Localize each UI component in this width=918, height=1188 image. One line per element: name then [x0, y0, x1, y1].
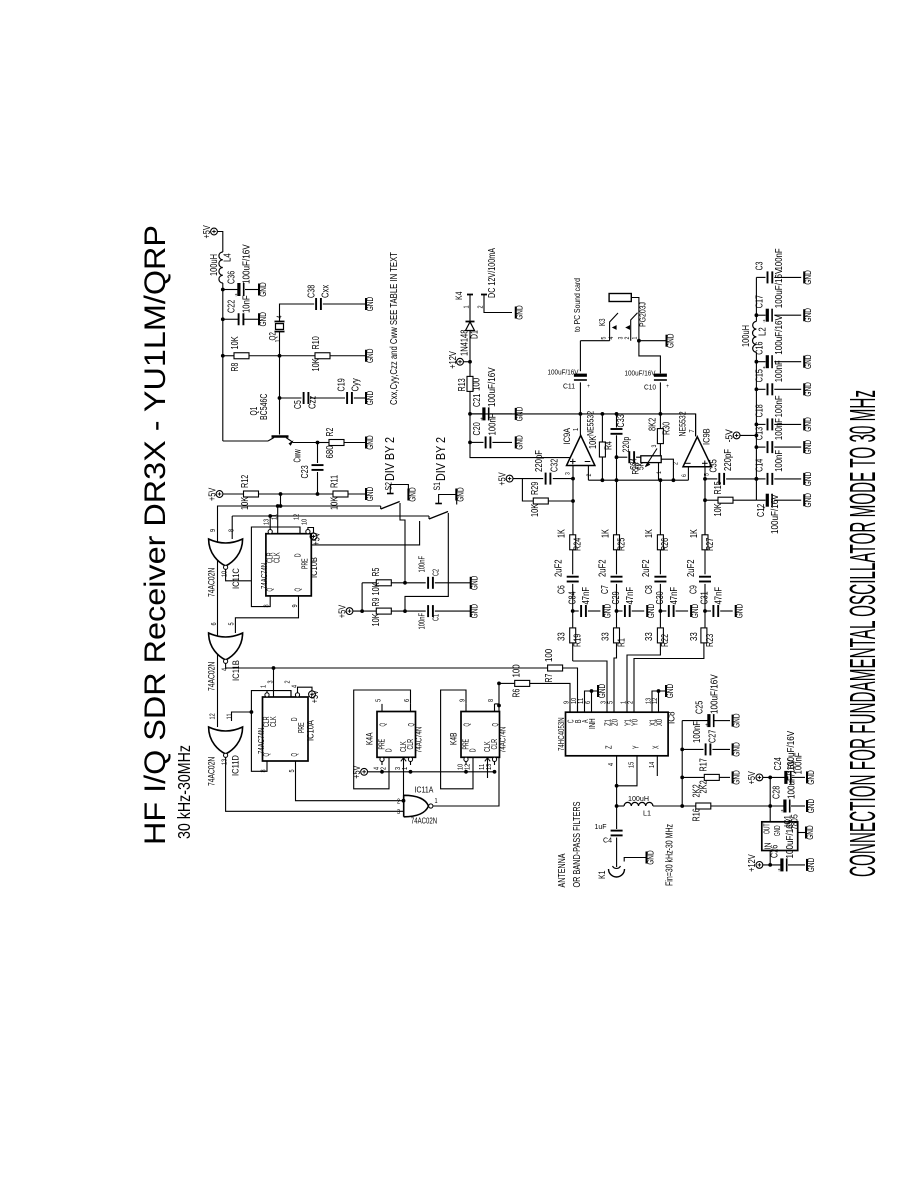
svg-text:C5: C5: [293, 400, 304, 409]
svg-text:8: 8: [229, 529, 236, 532]
svg-text:13: 13: [264, 519, 271, 525]
svg-text:GND: GND: [665, 683, 675, 698]
svg-text:D: D: [290, 717, 299, 721]
svg-text:K3: K3: [597, 318, 607, 326]
svg-text:C27: C27: [708, 729, 719, 743]
svg-text:C25: C25: [695, 700, 706, 714]
svg-text:680: 680: [325, 445, 336, 459]
svg-text:CONNECTION FOR FUNDAMENTAL OSC: CONNECTION FOR FUNDAMENTAL OSCILLATOR MO…: [842, 390, 883, 877]
svg-text:IC8: IC8: [667, 712, 678, 725]
svg-text:GND: GND: [258, 282, 268, 297]
svg-text:220p: 220p: [621, 437, 631, 453]
svg-text:11: 11: [479, 764, 486, 770]
svg-text:R16: R16: [692, 808, 703, 822]
svg-text:100uF/16V: 100uF/16V: [770, 494, 781, 534]
svg-text:2uF2: 2uF2: [554, 559, 565, 577]
svg-text:10K: 10K: [371, 613, 382, 626]
svg-text:GND: GND: [773, 825, 782, 836]
svg-text:GND: GND: [803, 382, 813, 397]
svg-text:C22: C22: [227, 299, 238, 313]
svg-text:2: 2: [586, 473, 593, 476]
svg-text:100uF/16V: 100uF/16V: [785, 819, 796, 859]
svg-text:100nF: 100nF: [774, 450, 785, 472]
svg-text:C16: C16: [755, 341, 766, 355]
svg-text:C6: C6: [556, 585, 567, 594]
svg-text:+12V: +12V: [448, 351, 459, 369]
svg-text:BC546C: BC546C: [259, 394, 270, 420]
svg-text:OUT: OUT: [763, 823, 772, 834]
svg-text:C19: C19: [337, 378, 348, 392]
svg-text:C7: C7: [600, 585, 611, 594]
svg-text:ANTENNA: ANTENNA: [557, 853, 568, 887]
svg-text:1: 1: [573, 428, 580, 431]
svg-text:GND: GND: [690, 603, 700, 618]
svg-text:10: 10: [222, 571, 229, 577]
svg-text:9: 9: [210, 529, 217, 532]
svg-text:+5V: +5V: [310, 690, 321, 703]
svg-text:GND: GND: [803, 493, 813, 508]
svg-text:R1: R1: [616, 638, 627, 647]
svg-text:8: 8: [264, 604, 271, 607]
svg-text:+5V: +5V: [337, 605, 348, 618]
svg-text:IC11B: IC11B: [231, 660, 242, 681]
svg-text:C20: C20: [472, 422, 483, 436]
svg-text:33: 33: [600, 632, 611, 641]
svg-text:74AC74N: 74AC74N: [498, 727, 508, 753]
svg-text:Z: Z: [605, 745, 614, 749]
svg-text:R26: R26: [660, 537, 671, 551]
svg-text:2: 2: [673, 462, 680, 465]
svg-text:100nF: 100nF: [692, 721, 703, 743]
svg-text:HF I/Q SDR Receiver DR3X - YU1: HF I/Q SDR Receiver DR3X - YU1LM/QRP: [139, 225, 172, 845]
svg-text:PG203J: PG203J: [638, 302, 648, 327]
svg-text:+5V: +5V: [207, 488, 218, 501]
svg-text:IC11A: IC11A: [415, 785, 434, 795]
svg-text:10K: 10K: [530, 504, 541, 517]
svg-text:R23: R23: [705, 633, 716, 647]
svg-text:L2: L2: [758, 327, 769, 336]
svg-text:+5V: +5V: [311, 532, 322, 545]
svg-text:C11: C11: [563, 382, 575, 391]
svg-text:R7: R7: [544, 673, 555, 682]
svg-text:DC 12V/100mA: DC 12V/100mA: [487, 248, 498, 298]
svg-text:R6: R6: [512, 688, 523, 697]
svg-text:IC11C: IC11C: [231, 568, 242, 589]
svg-text:74AC74N: 74AC74N: [414, 727, 424, 753]
svg-text:100uF/16V: 100uF/16V: [487, 367, 498, 407]
svg-text:C21: C21: [472, 393, 483, 407]
svg-text:GND: GND: [806, 770, 816, 785]
svg-text:1uF: 1uF: [595, 822, 607, 831]
svg-text:R11: R11: [330, 474, 341, 488]
svg-text:100uF/16V: 100uF/16V: [242, 244, 253, 284]
svg-text:GND: GND: [365, 435, 375, 450]
svg-text:GND: GND: [805, 825, 815, 840]
svg-text:R22: R22: [660, 633, 671, 647]
svg-text:1: 1: [464, 305, 471, 308]
svg-text:12: 12: [294, 514, 301, 520]
svg-text:10K: 10K: [371, 582, 382, 595]
svg-text:K4B: K4B: [449, 733, 460, 746]
svg-text:1K: 1K: [644, 529, 655, 538]
svg-text:100uF/16V: 100uF/16V: [774, 268, 785, 308]
svg-text:8: 8: [488, 699, 495, 702]
svg-text:R30: R30: [662, 421, 673, 435]
svg-text:GND: GND: [365, 296, 375, 311]
svg-text:C1: C1: [432, 614, 441, 621]
svg-text:GND: GND: [803, 308, 813, 323]
svg-text:R15: R15: [713, 481, 724, 495]
svg-text:1: 1: [632, 336, 639, 339]
svg-text:10K: 10K: [240, 497, 251, 510]
svg-text:GND: GND: [602, 603, 612, 618]
svg-text:Q: Q: [491, 723, 500, 727]
svg-text:2: 2: [478, 305, 485, 308]
svg-text:33: 33: [689, 632, 700, 641]
svg-text:R19: R19: [573, 633, 584, 647]
svg-text:Y0: Y0: [630, 719, 639, 726]
svg-text:IC10A: IC10A: [306, 720, 317, 741]
svg-text:R27: R27: [705, 537, 716, 551]
svg-text:-5V: -5V: [724, 429, 735, 442]
svg-text:C23: C23: [300, 465, 311, 479]
svg-text:5: 5: [229, 622, 236, 625]
svg-text:4: 4: [608, 336, 615, 339]
svg-text:100nF: 100nF: [774, 395, 785, 417]
svg-text:10K: 10K: [230, 336, 241, 349]
svg-text:D: D: [385, 748, 394, 752]
svg-text:R17: R17: [699, 758, 710, 772]
svg-text:C33: C33: [616, 414, 627, 428]
svg-text:74AC02N: 74AC02N: [207, 662, 218, 691]
svg-text:10: 10: [458, 764, 465, 770]
svg-text:+: +: [705, 723, 708, 729]
svg-text:+5V: +5V: [352, 765, 363, 778]
svg-text:D1: D1: [470, 330, 481, 339]
svg-text:1: 1: [275, 339, 282, 342]
svg-text:100uH: 100uH: [628, 794, 649, 803]
svg-text:DIV BY 2: DIV BY 2: [382, 437, 397, 481]
svg-text:IC11D: IC11D: [231, 755, 242, 776]
svg-text:2K2: 2K2: [692, 784, 703, 798]
svg-text:8: 8: [260, 769, 267, 772]
svg-text:C13: C13: [755, 427, 766, 441]
svg-text:C3: C3: [755, 261, 766, 270]
svg-text:R2: R2: [325, 427, 336, 436]
svg-text:100uH: 100uH: [209, 254, 220, 276]
svg-text:100nF: 100nF: [418, 556, 427, 573]
svg-text:C10: C10: [644, 383, 656, 392]
svg-text:GND: GND: [646, 850, 656, 865]
svg-text:R24: R24: [573, 537, 584, 551]
svg-text:NE5532: NE5532: [586, 411, 597, 436]
svg-text:C24: C24: [773, 757, 784, 771]
svg-text:Q: Q: [463, 723, 472, 727]
svg-text:GND: GND: [803, 354, 813, 369]
svg-text:Cxx: Cxx: [321, 285, 332, 298]
svg-text:47nF: 47nF: [581, 587, 592, 605]
svg-text:C31: C31: [700, 591, 711, 605]
svg-text:GND: GND: [803, 270, 813, 285]
svg-text:74AC02N: 74AC02N: [411, 816, 437, 826]
svg-text:C38: C38: [307, 284, 318, 298]
svg-text:100uF/16V: 100uF/16V: [625, 369, 656, 378]
svg-text:Y: Y: [632, 745, 641, 749]
svg-text:2: 2: [624, 336, 631, 339]
svg-text:+5V: +5V: [747, 771, 758, 784]
svg-text:1: 1: [260, 685, 267, 688]
svg-text:Q: Q: [407, 723, 416, 727]
svg-text:100nF: 100nF: [488, 414, 499, 436]
svg-text:30 kHz-30MHz: 30 kHz-30MHz: [174, 745, 194, 839]
svg-text:2uF2: 2uF2: [641, 559, 652, 577]
svg-text:+: +: [778, 868, 781, 874]
svg-text:220pF: 220pF: [534, 450, 545, 472]
svg-text:R13: R13: [457, 378, 468, 392]
svg-text:GND: GND: [407, 487, 417, 502]
svg-text:GND: GND: [732, 770, 742, 785]
svg-text:6: 6: [211, 622, 218, 625]
svg-text:1: 1: [434, 798, 437, 805]
svg-text:33: 33: [557, 632, 568, 641]
svg-text:47nF: 47nF: [625, 587, 636, 605]
svg-text:GND: GND: [258, 312, 268, 327]
svg-text:Q: Q: [290, 753, 299, 757]
svg-text:L1: L1: [643, 809, 651, 818]
svg-text:PRE: PRE: [462, 739, 471, 750]
svg-text:9: 9: [564, 701, 571, 704]
svg-text:L4: L4: [223, 253, 234, 262]
svg-text:GND: GND: [646, 603, 656, 618]
svg-text:+12V: +12V: [747, 854, 758, 872]
svg-text:K1: K1: [597, 871, 608, 879]
svg-text:C12: C12: [756, 503, 767, 517]
svg-text:33: 33: [644, 632, 655, 641]
svg-text:1K: 1K: [557, 529, 568, 538]
svg-text:Q: Q: [379, 723, 388, 727]
svg-text:15: 15: [629, 762, 636, 768]
svg-text:R29: R29: [530, 481, 541, 495]
svg-text:74HC4053N: 74HC4053N: [556, 717, 566, 751]
svg-text:IC9B: IC9B: [702, 428, 713, 445]
svg-text:100: 100: [472, 377, 483, 391]
svg-text:Fin=30 kHz-30 MHz: Fin=30 kHz-30 MHz: [665, 824, 676, 886]
svg-text:GND: GND: [597, 683, 607, 698]
svg-text:K4A: K4A: [365, 732, 376, 745]
svg-text:100: 100: [544, 648, 555, 662]
svg-text:R12: R12: [240, 474, 251, 488]
svg-text:C84: C84: [567, 591, 578, 605]
svg-text:R9: R9: [371, 597, 382, 606]
svg-text:R4: R4: [604, 441, 615, 450]
svg-text:100nF: 100nF: [794, 753, 805, 775]
svg-text:100uH: 100uH: [741, 325, 752, 347]
svg-text:DIV BY 2: DIV BY 2: [433, 437, 448, 481]
svg-text:C15: C15: [755, 369, 766, 383]
svg-text:10nF: 10nF: [242, 295, 253, 313]
svg-text:Cyy: Cyy: [351, 378, 362, 391]
svg-text:R5: R5: [371, 567, 382, 576]
svg-text:1K: 1K: [689, 529, 700, 538]
svg-text:10: 10: [302, 519, 309, 525]
svg-text:47nF: 47nF: [714, 587, 725, 605]
svg-text:GND: GND: [515, 435, 525, 450]
svg-text:C30: C30: [655, 591, 666, 605]
svg-text:12: 12: [210, 713, 217, 719]
svg-text:8K2: 8K2: [648, 417, 659, 431]
svg-text:C32: C32: [550, 458, 561, 472]
svg-text:GND: GND: [806, 857, 816, 872]
svg-text:3: 3: [397, 809, 400, 816]
svg-text:C2: C2: [432, 569, 441, 576]
svg-text:3: 3: [395, 767, 402, 770]
svg-text:2: 2: [284, 680, 291, 683]
svg-text:2uF2: 2uF2: [686, 559, 697, 577]
svg-text:GND: GND: [365, 486, 375, 501]
svg-text:5: 5: [376, 699, 383, 702]
svg-text:D: D: [294, 553, 303, 557]
svg-text:K4: K4: [454, 292, 465, 300]
svg-text:C18: C18: [755, 404, 766, 418]
svg-text:C36: C36: [227, 270, 238, 284]
svg-text:10K: 10K: [588, 436, 599, 449]
svg-text:+5V: +5V: [497, 472, 508, 485]
svg-text:R10: R10: [311, 336, 322, 350]
svg-text:+: +: [763, 506, 766, 512]
svg-text:X: X: [652, 745, 661, 749]
svg-text:S1: S1: [432, 482, 443, 490]
svg-text:100nF: 100nF: [774, 418, 785, 440]
svg-text:GND: GND: [365, 348, 375, 363]
svg-text:1: 1: [656, 471, 663, 474]
svg-text:3: 3: [651, 444, 658, 447]
svg-text:OR BAND-PASS FILTERS: OR BAND-PASS FILTERS: [572, 801, 583, 887]
svg-text:C4: C4: [603, 836, 612, 845]
svg-text:2: 2: [397, 799, 400, 806]
svg-text:+: +: [235, 293, 238, 299]
svg-text:C29: C29: [611, 591, 622, 605]
svg-text:9: 9: [292, 604, 299, 607]
svg-text:GND: GND: [803, 417, 813, 432]
svg-text:GND: GND: [806, 798, 816, 813]
svg-text:4: 4: [374, 767, 381, 770]
svg-text:INH: INH: [588, 718, 597, 729]
svg-text:4: 4: [608, 763, 615, 766]
svg-text:D: D: [469, 748, 478, 752]
svg-text:+: +: [666, 384, 669, 390]
svg-text:GND: GND: [803, 440, 813, 455]
svg-text:+5V: +5V: [202, 225, 213, 238]
svg-text:C14: C14: [755, 458, 766, 472]
svg-text:C35: C35: [709, 459, 720, 473]
svg-text:+: +: [763, 319, 766, 325]
svg-text:74AC02N: 74AC02N: [207, 568, 218, 597]
svg-text:+: +: [781, 809, 784, 815]
svg-text:S2: S2: [384, 482, 395, 490]
svg-text:12: 12: [465, 764, 472, 770]
svg-text:74AC74N: 74AC74N: [256, 728, 266, 754]
svg-text:C8: C8: [644, 585, 655, 594]
svg-text:Q2: Q2: [268, 332, 279, 340]
svg-text:11: 11: [227, 713, 234, 719]
svg-text:100nF: 100nF: [774, 248, 785, 270]
svg-text:X0: X0: [655, 719, 664, 726]
svg-text:+: +: [480, 417, 483, 423]
svg-text:220pF: 220pF: [723, 449, 734, 471]
svg-text:GND: GND: [515, 305, 525, 320]
svg-text:14: 14: [649, 762, 656, 768]
svg-text:Cxx,Cyy,Czz and Cww SEE TABLE: Cxx,Cyy,Czz and Cww SEE TABLE IN TEXT: [389, 252, 400, 405]
svg-text:+: +: [587, 384, 590, 390]
svg-text:6: 6: [681, 474, 688, 477]
svg-text:C17: C17: [755, 295, 766, 309]
svg-text:10: 10: [571, 698, 578, 704]
svg-text:C9: C9: [689, 585, 700, 594]
svg-text:IC9A: IC9A: [562, 427, 573, 444]
svg-text:GND: GND: [365, 390, 375, 405]
svg-text:C34: C34: [629, 458, 639, 470]
svg-text:3: 3: [565, 472, 572, 475]
svg-text:10K: 10K: [311, 358, 322, 371]
svg-text:2uF2: 2uF2: [597, 559, 608, 577]
svg-text:CLK: CLK: [273, 552, 282, 563]
svg-text:GND: GND: [470, 604, 480, 619]
svg-text:11: 11: [272, 514, 279, 520]
svg-text:13: 13: [222, 759, 229, 765]
svg-text:47nF: 47nF: [669, 587, 680, 605]
svg-text:100uF/16V: 100uF/16V: [548, 368, 579, 377]
svg-text:GND: GND: [455, 487, 465, 502]
svg-text:C26: C26: [770, 844, 781, 858]
svg-text:5: 5: [601, 336, 608, 339]
svg-text:Czz: Czz: [308, 396, 319, 409]
svg-text:CLK: CLK: [269, 716, 278, 727]
svg-text:7: 7: [689, 429, 696, 432]
svg-text:5: 5: [289, 769, 296, 772]
svg-text:3: 3: [267, 680, 274, 683]
svg-text:GND: GND: [732, 713, 742, 728]
svg-text:to PC Sound card: to PC Sound card: [572, 278, 582, 332]
svg-text:GND: GND: [666, 333, 676, 348]
svg-text:100nF: 100nF: [774, 360, 785, 382]
svg-text:100uF/16V: 100uF/16V: [710, 674, 721, 714]
svg-text:74AC02N: 74AC02N: [207, 757, 218, 786]
svg-text:4: 4: [277, 315, 284, 318]
svg-text:100uF/16V: 100uF/16V: [774, 315, 785, 355]
svg-text:1K: 1K: [600, 529, 611, 538]
svg-text:100: 100: [512, 664, 523, 678]
svg-text:R8: R8: [230, 362, 241, 371]
svg-text:74AC74N: 74AC74N: [259, 563, 269, 589]
svg-text:GND: GND: [735, 603, 745, 618]
svg-text:100nF: 100nF: [418, 613, 427, 630]
svg-text:GND: GND: [470, 575, 480, 590]
svg-text:C28: C28: [772, 785, 783, 799]
svg-text:IC10B: IC10B: [309, 557, 320, 578]
svg-text:2: 2: [381, 767, 388, 770]
svg-text:GND: GND: [803, 471, 813, 486]
svg-text:NE5532: NE5532: [678, 411, 689, 436]
svg-text:Cww: Cww: [293, 449, 304, 463]
svg-text:Z0: Z0: [610, 719, 619, 726]
svg-text:PRE: PRE: [378, 739, 387, 750]
svg-text:10K: 10K: [713, 503, 724, 516]
svg-text:GND: GND: [732, 742, 742, 757]
svg-text:R25: R25: [616, 537, 627, 551]
svg-text:10K: 10K: [330, 497, 341, 510]
svg-text:Q: Q: [294, 588, 303, 592]
